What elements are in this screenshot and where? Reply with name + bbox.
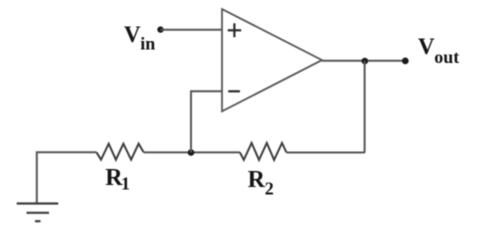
- svg-text:2: 2: [265, 179, 274, 199]
- wire ground to R1: [37, 152, 97, 203]
- node output junction: [362, 58, 369, 65]
- wire op-amp output: [322, 60, 405, 62]
- label Vin: [124, 22, 155, 54]
- wire Vin to op-amp + input: [161, 29, 222, 31]
- svg-text:R: R: [248, 167, 266, 193]
- node Vin terminal: [157, 26, 163, 32]
- svg-text:V: V: [124, 22, 141, 47]
- svg-text:in: in: [140, 34, 155, 54]
- resistor R2: [240, 143, 287, 160]
- label Vout: [418, 34, 459, 67]
- svg-text:out: out: [434, 47, 459, 67]
- svg-text:V: V: [418, 34, 435, 59]
- op-amp U1: [222, 9, 322, 111]
- node Vout terminal: [402, 58, 409, 65]
- node A junction: [188, 149, 195, 156]
- resistor R1: [97, 144, 144, 160]
- wire output junction down to feedback rail: [364, 61, 366, 153]
- label R1: [105, 165, 130, 194]
- svg-text:1: 1: [121, 173, 130, 193]
- label R2: [248, 167, 274, 199]
- ground: [17, 204, 59, 222]
- wire R1 to node A: [144, 151, 240, 153]
- wire node A up to op-amp - input: [191, 91, 222, 152]
- wire R2 to output rail: [287, 152, 366, 154]
